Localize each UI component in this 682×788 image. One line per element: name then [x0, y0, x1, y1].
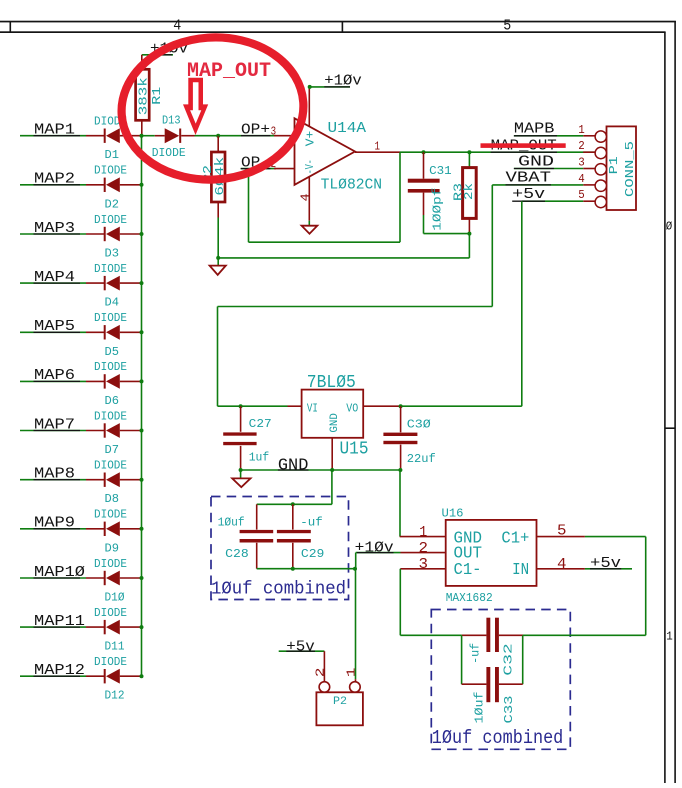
node label GND (connector) — [514, 152, 583, 170]
wire ground into capacitor bank 1 — [257, 470, 332, 504]
svg-text:D2: D2 — [105, 197, 120, 211]
wire OP- into op-amp — [241, 168, 295, 170]
junction +10v rail / bank1 — [353, 567, 357, 571]
svg-text:D13: D13 — [162, 114, 181, 128]
diode D12 — [86, 669, 142, 684]
resistor R1 — [136, 55, 150, 136]
svg-text:+5v: +5v — [512, 185, 545, 203]
capacitor C33 — [462, 667, 523, 702]
diode D1 — [86, 128, 142, 143]
ground symbol below op-amp — [302, 226, 318, 234]
wire U16 C1+ down to C32 — [645, 537, 647, 636]
svg-text:U14A: U14A — [328, 119, 367, 137]
svg-text:22uf: 22uf — [407, 452, 436, 466]
wire net MAP9 — [20, 528, 86, 530]
junction bus/MAP4 — [140, 281, 144, 285]
wire net MAP7 — [20, 430, 86, 432]
wire op-amp output to connector — [400, 151, 596, 153]
svg-text:MAP4: MAP4 — [34, 268, 75, 286]
node label +5v (U16) — [590, 554, 621, 572]
svg-text:VI: VI — [307, 401, 318, 415]
svg-text:MAP7: MAP7 — [34, 415, 75, 433]
diode D5 — [86, 325, 142, 340]
charge pump U16 MAX1682 — [446, 520, 537, 586]
svg-text:-V-: -V- — [304, 159, 317, 174]
wire C32 right to C1+ net — [523, 634, 646, 636]
junction C27/ground wire — [239, 468, 243, 472]
capacitor C29 — [277, 504, 311, 568]
wire +5v to regulator output — [401, 201, 522, 406]
wire net MAP10 — [20, 577, 86, 579]
svg-text:VBAT: VBAT — [506, 168, 552, 186]
svg-text:D9: D9 — [105, 541, 120, 555]
resistor R2 — [211, 136, 225, 258]
svg-text:MAP1: MAP1 — [34, 121, 75, 139]
junction VI/C27 — [239, 404, 243, 408]
svg-text:1uf: 1uf — [249, 451, 270, 465]
junction VO/C30 — [399, 404, 403, 408]
svg-text:+1Øv: +1Øv — [324, 72, 362, 90]
svg-text:U16: U16 — [442, 507, 464, 521]
svg-text:DIODE: DIODE — [94, 459, 127, 473]
diode D7 — [86, 423, 142, 438]
svg-text:Ø: Ø — [666, 220, 673, 234]
svg-text:MAP9: MAP9 — [34, 514, 75, 532]
svg-text:3: 3 — [419, 556, 429, 573]
junction OP+ node / R2 — [216, 134, 220, 138]
connector P1 — [583, 126, 636, 210]
svg-text:U15: U15 — [340, 439, 369, 460]
svg-text:1Øuf combined: 1Øuf combined — [432, 727, 564, 749]
svg-text:2: 2 — [314, 668, 328, 678]
node label MAPB — [514, 119, 583, 137]
junction C29 top — [291, 502, 295, 506]
junction bus/MAP9 — [140, 527, 144, 531]
wire OP+ into op-amp — [218, 135, 294, 137]
svg-text:C28: C28 — [225, 547, 249, 561]
svg-text:1Øuf: 1Øuf — [218, 516, 245, 530]
svg-text:C31: C31 — [429, 164, 452, 178]
op-amp V+ supply pin (pin 8) — [300, 87, 310, 127]
svg-text:MAP2: MAP2 — [34, 170, 75, 188]
junction R1/bus/D13 — [140, 134, 144, 138]
annotation dashed box 2 — [431, 610, 570, 750]
svg-text:1ØØpf: 1ØØpf — [431, 188, 445, 231]
node label +5v (connector) — [512, 185, 583, 203]
capacitor C28 — [240, 504, 274, 568]
svg-text:C3Ø: C3Ø — [407, 418, 431, 432]
capacitor C32 — [462, 618, 523, 652]
regulator U15 7BL05 — [288, 390, 401, 470]
svg-text:DIODE: DIODE — [94, 557, 127, 571]
svg-text:MAP1Ø: MAP1Ø — [34, 563, 85, 581]
node label VBAT — [492, 168, 583, 186]
frame row tick — [665, 427, 675, 429]
wire net MAP11 — [20, 626, 86, 628]
junction bus/MAP11 — [140, 625, 144, 629]
svg-text:C27: C27 — [249, 417, 272, 431]
svg-text:DIODE: DIODE — [94, 606, 127, 620]
svg-text:1Øuf combined: 1Øuf combined — [211, 579, 346, 599]
svg-text:MAP12: MAP12 — [34, 661, 85, 679]
wire ground net (R2 to R3/C31) — [218, 257, 469, 259]
svg-text:C32: C32 — [502, 643, 516, 676]
svg-text:5: 5 — [503, 17, 511, 34]
wire +10v vertical to P2 — [355, 553, 357, 680]
wire C31/R3 bottom — [424, 233, 470, 235]
svg-text:+5v: +5v — [286, 638, 315, 656]
svg-text:MAPB: MAPB — [514, 119, 555, 137]
junction bus/MAP7 — [140, 429, 144, 433]
diode D11 — [86, 620, 142, 635]
wire net MAP1 — [20, 135, 86, 137]
junction bus/MAP2 — [140, 183, 144, 187]
capacitor C31 — [408, 152, 440, 233]
junction bus/MAP12 — [140, 674, 144, 678]
pin 2 wire (U16 OUT) — [401, 540, 446, 557]
svg-text:DIODE: DIODE — [94, 508, 127, 522]
wire VBAT to regulator input — [218, 185, 493, 406]
diode D8 — [86, 472, 142, 487]
svg-text:MAP8: MAP8 — [34, 465, 75, 483]
wire ground to U16 pin 1 — [399, 470, 401, 537]
svg-text:CONN_5: CONN_5 — [623, 141, 637, 197]
svg-text:4: 4 — [557, 556, 567, 573]
svg-text:5: 5 — [557, 523, 567, 540]
svg-text:C33: C33 — [502, 696, 516, 724]
resistor R3 — [463, 152, 477, 233]
junction regulator GND pin / ground wire — [330, 468, 334, 472]
ground symbol below R2 — [210, 258, 226, 275]
svg-text:3: 3 — [271, 124, 277, 138]
svg-text:P1: P1 — [607, 156, 621, 174]
diode D9 — [86, 521, 142, 536]
svg-text:D4: D4 — [105, 296, 120, 310]
wire net MAP8 — [20, 479, 86, 481]
svg-text:MAP3: MAP3 — [34, 219, 75, 237]
svg-text:DIODE: DIODE — [94, 360, 127, 374]
svg-text:GND: GND — [278, 455, 309, 474]
svg-text:DIODE: DIODE — [94, 409, 127, 423]
svg-text:IN: IN — [512, 561, 529, 580]
svg-text:MAP6: MAP6 — [34, 366, 75, 384]
diode D13 — [142, 128, 219, 143]
svg-text:D11: D11 — [105, 640, 125, 654]
svg-text:4: 4 — [299, 193, 313, 201]
connector P2 — [316, 651, 363, 725]
svg-text:DIODE: DIODE — [94, 655, 127, 669]
capacitor C27 — [223, 406, 256, 470]
wire R3 bottom to ground net — [468, 234, 470, 258]
junction R2 / ground net — [216, 256, 220, 260]
wire capacitor bank 1 bottom rail — [257, 568, 355, 570]
wire OP- feedback vertical — [248, 169, 250, 243]
node label +5v (P2) — [279, 638, 325, 656]
svg-text:DIODE: DIODE — [94, 213, 127, 227]
diode D2 — [86, 177, 142, 192]
annotation dashed box 1 — [211, 497, 349, 600]
wire parallel left leg — [461, 635, 463, 684]
wire feedback (output to OP-) — [249, 152, 401, 242]
wire net MAP6 — [20, 380, 86, 382]
op-amp output pin 1 — [355, 139, 400, 153]
annotation red arrow — [183, 78, 208, 135]
diode D6 — [86, 374, 142, 389]
svg-text:2: 2 — [419, 540, 429, 557]
op-amp U14A — [295, 118, 356, 185]
svg-text:D8: D8 — [105, 492, 120, 506]
power label +10v (op-amp) — [308, 72, 362, 90]
junction C30/ground wire — [398, 468, 402, 472]
pin 5 wire (U16 C1+) — [537, 523, 646, 540]
svg-text:DIODE: DIODE — [152, 146, 186, 160]
wire net MAP4 — [20, 282, 86, 284]
svg-text:7BLØ5: 7BLØ5 — [307, 372, 356, 393]
svg-text:-uf: -uf — [468, 643, 482, 664]
diode D3 — [86, 227, 142, 242]
svg-text:C29: C29 — [301, 547, 325, 561]
diode D10 — [86, 571, 142, 586]
svg-text:1: 1 — [666, 630, 673, 644]
junction bus/MAP3 — [140, 232, 144, 236]
svg-text:D5: D5 — [105, 345, 120, 359]
svg-text:GND: GND — [329, 413, 341, 433]
ground symbol below C27 — [232, 470, 250, 487]
node label GND (center) — [278, 455, 309, 474]
svg-text:P2: P2 — [333, 696, 347, 708]
svg-text:R1: R1 — [150, 87, 164, 105]
wire net MAP2 — [20, 184, 86, 186]
svg-text:2: 2 — [578, 139, 585, 153]
capacitor C30 — [383, 406, 417, 470]
wire net MAP3 — [20, 233, 86, 235]
junction bus/MAP6 — [140, 379, 144, 383]
svg-text:4: 4 — [578, 172, 585, 186]
pin 3 wire (U16 C1-) — [400, 556, 445, 573]
svg-text:C1+: C1+ — [501, 530, 529, 549]
svg-text:R3: R3 — [452, 183, 466, 201]
wire U16 C1- down to C32 — [399, 569, 401, 636]
svg-text:TLØ82CN: TLØ82CN — [321, 176, 383, 194]
annotation red ellipse — [117, 31, 308, 185]
svg-text:DIODE: DIODE — [94, 311, 127, 325]
svg-text:1: 1 — [419, 524, 427, 541]
svg-text:+5v: +5v — [590, 554, 621, 572]
svg-text:MAX1682: MAX1682 — [446, 591, 493, 605]
diode D4 — [86, 276, 142, 291]
junction bus/MAP10 — [140, 576, 144, 580]
svg-text:1: 1 — [345, 668, 359, 678]
svg-text:V+: V+ — [304, 131, 317, 147]
svg-text:MAP5: MAP5 — [34, 317, 75, 335]
svg-text:D12: D12 — [105, 689, 125, 703]
power label +10v (bottom) — [355, 538, 401, 556]
svg-text:D6: D6 — [105, 394, 120, 408]
wire parallel right leg — [522, 635, 524, 684]
svg-text:5: 5 — [578, 188, 585, 202]
wire diode bus — [141, 136, 143, 677]
svg-text:1: 1 — [375, 139, 381, 153]
svg-text:D1: D1 — [105, 148, 120, 162]
svg-text:4: 4 — [173, 17, 181, 34]
wire net MAP12 — [20, 675, 86, 677]
pin 4 wire (U16 IN) — [537, 556, 633, 573]
svg-text:MAP11: MAP11 — [34, 612, 85, 630]
junction bus/MAP5 — [140, 330, 144, 334]
svg-text:+1Øv: +1Øv — [355, 538, 394, 556]
svg-text:383k: 383k — [136, 77, 150, 115]
svg-text:D1Ø: D1Ø — [105, 591, 125, 605]
annotation red strikethrough over MAP_OUT — [481, 143, 566, 148]
wire net MAP5 — [20, 331, 86, 333]
power label +10v (R1) — [142, 39, 188, 57]
junction bus/MAP8 — [140, 478, 144, 482]
wire ground net (C27 to C30) — [241, 469, 401, 471]
svg-text:-uf: -uf — [300, 516, 323, 530]
junction C29 bottom — [291, 567, 295, 571]
svg-text:DIODE: DIODE — [94, 164, 127, 178]
svg-text:D7: D7 — [105, 443, 120, 457]
svg-text:OP+: OP+ — [241, 121, 270, 139]
wire C1- to C32 left — [400, 634, 461, 636]
svg-text:1: 1 — [578, 123, 585, 137]
svg-text:C1-: C1- — [454, 561, 482, 580]
junction output/R3 — [467, 150, 471, 154]
svg-text:VO: VO — [346, 401, 358, 415]
junction output/C31 — [422, 150, 426, 154]
svg-text:DIODE: DIODE — [94, 262, 127, 276]
svg-text:1Øuf: 1Øuf — [472, 692, 486, 724]
svg-text:D3: D3 — [105, 247, 120, 261]
pin 1 wire (U16 GND) — [400, 524, 446, 541]
op-amp V- supply pin (pin 4) — [299, 177, 313, 226]
svg-text:3: 3 — [578, 156, 585, 170]
junction R3 bottom — [467, 232, 471, 236]
